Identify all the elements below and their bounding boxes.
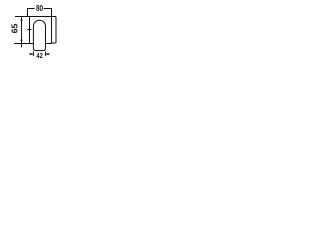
svg-text:42: 42: [36, 52, 43, 60]
dimension 80: bent dimension line above plate: [28, 9, 52, 17]
side view bottom edge: [52, 42, 57, 44]
top edge of plate with left extension line for dim 65: [15, 16, 56, 18]
plate left edge: [29, 17, 31, 44]
svg-text:80: 80: [36, 3, 43, 13]
dimension 42: dimension line segments: [29, 53, 49, 55]
plate right edge / side-view divider: [51, 17, 53, 44]
dim 42 right arrowhead: [46, 53, 49, 55]
svg-text:65: 65: [10, 23, 20, 33]
dim 65 bottom arrowhead: [20, 40, 22, 44]
dimension 42: extension lines below U cup: [33, 51, 45, 56]
arched slot with hanging U cup: [33, 20, 45, 50]
dim 42 left arrowhead: [30, 53, 33, 55]
dim 65 top arrowhead: [20, 17, 22, 21]
side view right edge: [55, 17, 57, 44]
small tick on plate left edge: [27, 29, 31, 31]
plate bottom edge + left extension line for dim 65: [14, 43, 52, 45]
background: [0, 0, 74, 74]
dimension 65: vertical dimension line segments: [21, 17, 23, 47]
